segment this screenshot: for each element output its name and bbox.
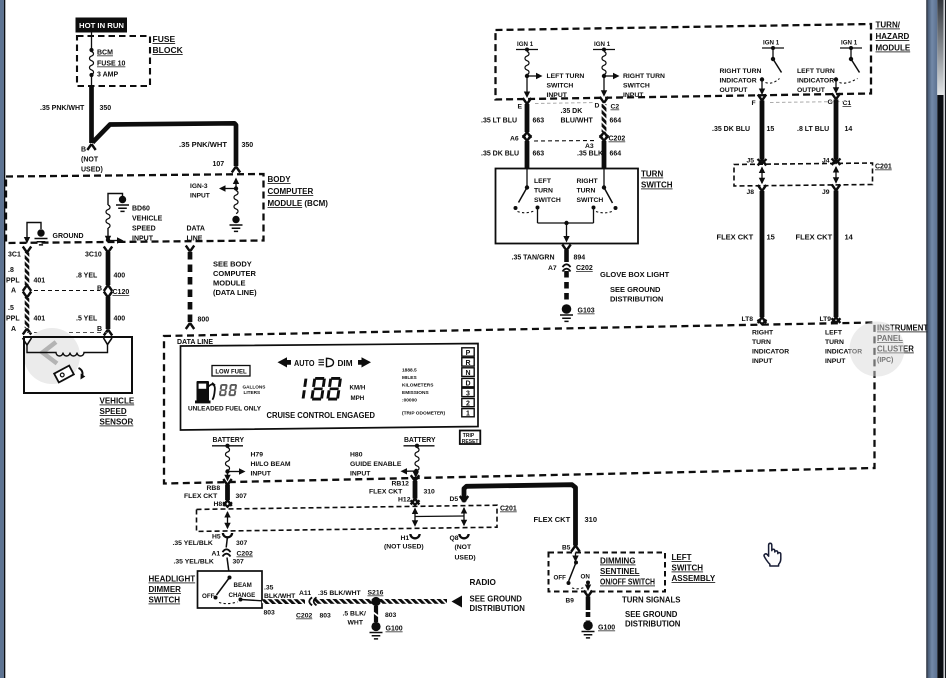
svg-text:RB8: RB8 [207, 485, 221, 492]
right turn indicator input pin label [752, 330, 789, 366]
instrument panel cluster label [877, 324, 928, 365]
svg-text:1: 1 [466, 411, 470, 418]
svg-text:A3: A3 [585, 143, 594, 150]
C201 internal pass-through H12/D5 with link [412, 507, 467, 527]
svg-text:.35 PNK/WHT: .35 PNK/WHT [179, 142, 228, 149]
svg-text::00000: :00000 [402, 398, 417, 404]
see body computer module note [213, 260, 257, 298]
svg-text:LEFT TURN: LEFT TURN [547, 73, 585, 80]
svg-text:COMPUTER: COMPUTER [213, 269, 257, 278]
svg-text:TURN: TURN [825, 339, 844, 346]
svg-text:INPUT: INPUT [350, 471, 371, 478]
svg-text:LOW FUEL: LOW FUEL [215, 369, 247, 375]
svg-text:DISTRIBUTION: DISTRIBUTION [470, 604, 526, 613]
fuse BCM FUSE 10 3 AMP [89, 31, 125, 86]
svg-text:803: 803 [320, 613, 332, 620]
data line thick dashed wire 800 [186, 246, 209, 330]
svg-text:COMPUTER: COMPUTER [268, 187, 314, 196]
svg-text:MILES: MILES [402, 375, 417, 381]
vss entry dashed line [27, 332, 108, 334]
svg-text:.35 PNK/WHT: .35 PNK/WHT [40, 105, 85, 112]
svg-text:VEHICLE: VEHICLE [132, 216, 163, 223]
svg-text:.35: .35 [264, 585, 274, 592]
svg-text:FUSE: FUSE [153, 34, 176, 44]
svg-text:RIGHT: RIGHT [577, 178, 599, 185]
left turn indicator input pin label [825, 330, 862, 366]
connector C201 dashed box [197, 505, 498, 531]
svg-text:C2: C2 [611, 104, 620, 111]
svg-text:BLU/WHT: BLU/WHT [561, 118, 594, 125]
svg-text:C202: C202 [237, 551, 253, 558]
svg-text:2: 2 [466, 401, 470, 408]
odometer captions [402, 368, 445, 417]
IGN 1 left turn switch input circuit [516, 41, 584, 99]
off page arrow to ground distribution (radio) [452, 578, 526, 613]
svg-text:C202: C202 [296, 613, 312, 620]
svg-text:LITERS: LITERS [244, 390, 261, 395]
svg-text:LEFT: LEFT [825, 330, 843, 337]
wire .5 YEL 400 [76, 292, 125, 336]
km/h mph captions [350, 385, 366, 402]
svg-text:OFF: OFF [202, 593, 215, 600]
wire .5 PPL 401 (hatched) [6, 292, 45, 335]
svg-text:14: 14 [845, 126, 853, 133]
svg-text:.8 LT BLU: .8 LT BLU [797, 126, 829, 133]
svg-text:ON: ON [581, 574, 591, 581]
svg-text:401: 401 [34, 278, 46, 285]
terminal D5 and flex ckt 310 wire to B5 [450, 485, 598, 552]
terminal E [518, 98, 532, 111]
svg-text:AUTO: AUTO [294, 359, 315, 368]
svg-text:GLOVE BOX LIGHT: GLOVE BOX LIGHT [600, 270, 670, 279]
svg-text:A7: A7 [548, 265, 557, 272]
svg-text:TURN SIGNALS: TURN SIGNALS [622, 596, 680, 605]
svg-text:INDICATOR: INDICATOR [752, 349, 789, 356]
data line pin inside BCM [187, 226, 205, 243]
svg-text:401: 401 [34, 316, 46, 323]
svg-text:IGN-3: IGN-3 [190, 183, 208, 190]
svg-text:PPL: PPL [6, 278, 20, 285]
turn signals note [622, 596, 681, 629]
svg-text:SPEED: SPEED [100, 407, 127, 416]
svg-text:A1: A1 [212, 551, 221, 558]
svg-text:350: 350 [242, 142, 254, 149]
svg-text:DIMMING: DIMMING [600, 557, 636, 566]
svg-text:15: 15 [767, 126, 775, 133]
svg-text:E: E [518, 104, 523, 111]
svg-text:BATTERY: BATTERY [213, 437, 245, 444]
svg-text:FLEX CKT: FLEX CKT [369, 489, 403, 496]
connector C201 right dashed box [734, 163, 873, 186]
IGN 1 right turn switch input circuit [593, 41, 665, 99]
turn/hazard module label [876, 21, 911, 53]
dimming sentinel labels [600, 557, 655, 587]
svg-text:S216: S216 [368, 590, 384, 597]
wire .35 LT BLU 663 [481, 104, 544, 138]
svg-text:LEFT TURN: LEFT TURN [797, 68, 835, 75]
svg-text:INPUT: INPUT [547, 92, 568, 99]
svg-text:LINE: LINE [187, 236, 203, 243]
headlight dimmer switch box [198, 571, 263, 608]
IGN 1 right turn indicator output switch [720, 40, 785, 96]
svg-text:(NOT: (NOT [455, 544, 472, 551]
svg-text:.35 TAN/GRN: .35 TAN/GRN [512, 255, 555, 262]
svg-text:OFF: OFF [554, 575, 567, 582]
turn switch label [641, 170, 673, 190]
svg-text:H79: H79 [251, 452, 264, 459]
wire .35 PNK/WHT 350 to BCM pin 107 [93, 123, 254, 172]
terminal D and C2 [535, 97, 619, 111]
svg-text:LT9: LT9 [820, 316, 832, 323]
gray artifact chevron [43, 342, 58, 364]
svg-text:14: 14 [845, 233, 854, 242]
svg-text:INDICATOR: INDICATOR [797, 78, 834, 85]
cluster display box [181, 344, 479, 431]
turn switch common bus [538, 221, 594, 243]
wire .35 DK BLU 663 [481, 141, 544, 169]
wire .8 LT BLU 14 [797, 100, 852, 166]
svg-text:C201: C201 [875, 164, 892, 171]
svg-text:BLOCK: BLOCK [153, 45, 184, 55]
svg-text:J9: J9 [822, 189, 830, 196]
svg-text:SEE BODY: SEE BODY [213, 260, 252, 269]
svg-text:A: A [11, 288, 16, 295]
svg-text:A6: A6 [510, 136, 519, 143]
svg-text:DIM: DIM [338, 359, 353, 368]
svg-text:400: 400 [114, 273, 126, 280]
svg-text:D: D [465, 381, 470, 388]
svg-text:310: 310 [424, 489, 436, 496]
svg-text:.35 DK BLU: .35 DK BLU [712, 126, 750, 133]
svg-text:3 AMP: 3 AMP [97, 72, 118, 79]
dimmer switch mechanism [202, 576, 262, 604]
svg-text:3C10: 3C10 [85, 252, 102, 259]
svg-text:HAZARD: HAZARD [876, 32, 910, 41]
terminal F [752, 95, 767, 108]
svg-text:KILOMETERS: KILOMETERS [402, 383, 434, 389]
svg-text:BLK/WHT: BLK/WHT [264, 593, 296, 600]
svg-text:LEFT: LEFT [534, 178, 552, 185]
svg-text:SWITCH: SWITCH [641, 181, 673, 190]
svg-text:.35 BLK: .35 BLK [577, 151, 603, 158]
svg-text:FUSE 10: FUSE 10 [97, 61, 126, 68]
svg-text:C202: C202 [576, 265, 593, 272]
svg-text:B9: B9 [566, 598, 575, 605]
gallons liters caption [243, 385, 266, 396]
svg-text:BATTERY: BATTERY [404, 437, 436, 444]
svg-text:EMISSIONS: EMISSIONS [402, 390, 429, 396]
svg-text:803: 803 [264, 610, 276, 617]
svg-text:D: D [595, 103, 600, 110]
trip reset button [460, 431, 481, 446]
svg-text:C120: C120 [113, 289, 130, 296]
svg-text:3C1: 3C1 [8, 252, 21, 259]
IGN 1 left turn indicator output switch [797, 40, 862, 95]
svg-text:BODY: BODY [268, 175, 292, 184]
svg-text:USED): USED) [455, 555, 476, 562]
svg-text:(DATA LINE): (DATA LINE) [213, 288, 257, 297]
svg-text:BD60: BD60 [132, 206, 150, 213]
svg-text:.35 YEL/BLK: .35 YEL/BLK [174, 559, 214, 566]
svg-text:663: 663 [533, 151, 545, 158]
svg-text:IGN 1: IGN 1 [763, 40, 780, 47]
svg-text:SEE GROUND: SEE GROUND [625, 610, 678, 619]
HOT IN RUN feed box [76, 18, 128, 33]
svg-text:FLEX CKT: FLEX CKT [534, 515, 571, 524]
svg-text:DISTRIBUTION: DISTRIBUTION [610, 295, 663, 304]
flex ckt 15 wire J8 to LT8 [717, 185, 775, 324]
wire .35 BLK 664 [577, 141, 621, 169]
svg-text:INPUT: INPUT [825, 358, 846, 365]
svg-text:FLEX CKT: FLEX CKT [796, 233, 833, 242]
svg-text:A11: A11 [299, 590, 311, 597]
svg-text:CHANGE: CHANGE [229, 592, 256, 599]
svg-text:TURN: TURN [641, 170, 663, 179]
svg-text:J8: J8 [747, 189, 755, 196]
svg-text:HI/LO BEAM: HI/LO BEAM [251, 461, 291, 468]
svg-text:310: 310 [585, 515, 598, 524]
svg-text:894: 894 [574, 255, 586, 262]
svg-text:DIMMER: DIMMER [149, 585, 182, 594]
svg-text:GALLONS: GALLONS [243, 385, 266, 390]
svg-text:B: B [97, 326, 102, 333]
svg-text:663: 663 [533, 118, 545, 125]
vehicle speed input circuit inside BCM, pin 3C10 [85, 194, 163, 259]
terminal B9 wire to G100 [566, 591, 593, 622]
svg-text:C201: C201 [500, 506, 517, 513]
svg-text:C202: C202 [609, 136, 626, 143]
svg-text:INPUT: INPUT [132, 236, 154, 243]
svg-text:(NOT USED): (NOT USED) [384, 544, 424, 551]
svg-text:RIGHT TURN: RIGHT TURN [720, 68, 762, 75]
ground G103 [560, 304, 595, 321]
svg-text:OUTPUT: OUTPUT [797, 87, 826, 94]
svg-text:RIGHT: RIGHT [752, 330, 774, 337]
svg-text:H12: H12 [398, 497, 411, 504]
svg-text:A: A [11, 326, 16, 333]
svg-text:SWITCH: SWITCH [547, 83, 574, 90]
connector C202 A6/A3 [510, 135, 625, 150]
svg-text:107: 107 [213, 161, 225, 168]
flex ckt 310 stub RB12-H12 [369, 475, 435, 505]
terminal G and C1 [770, 93, 851, 107]
connector C120 [34, 289, 129, 296]
wire 350 .35 PNK/WHT vertical from fuse [40, 86, 111, 143]
instrument panel cluster dashed box [164, 323, 875, 484]
C201 pass-through J4-J9 [833, 166, 839, 184]
watermark smudge over sensor [24, 328, 80, 384]
svg-text:664: 664 [610, 118, 622, 125]
svg-text:D5: D5 [450, 496, 459, 503]
wire 3C10 .8 YEL 400 [76, 247, 125, 293]
svg-text:INPUT: INPUT [190, 193, 210, 200]
svg-text:400: 400 [114, 316, 126, 323]
PRNDL gear indicator [462, 348, 474, 418]
svg-text:USED): USED) [81, 167, 103, 174]
wire 3C1 .8 PPL 401 (hatched) [6, 247, 45, 295]
svg-text:G103: G103 [578, 308, 595, 315]
svg-text:WHT: WHT [348, 620, 364, 627]
svg-text:.5 BLK/: .5 BLK/ [343, 611, 367, 618]
auto dim headlamp row [278, 357, 372, 368]
svg-text:P: P [466, 350, 471, 357]
svg-text:GROUND: GROUND [53, 233, 84, 240]
svg-text:LEFT: LEFT [672, 553, 692, 562]
svg-text:.35 DK BLU: .35 DK BLU [481, 151, 519, 158]
svg-text:.5: .5 [8, 305, 14, 312]
svg-text:HEADLIGHT: HEADLIGHT [149, 575, 196, 584]
svg-text:.35 YEL/BLK: .35 YEL/BLK [173, 540, 213, 547]
terminal H5 [173, 533, 248, 547]
wire .5 BLK/WHT 803 to G100 [343, 606, 397, 627]
svg-text:RESET: RESET [462, 439, 479, 445]
svg-text:GUIDE ENABLE: GUIDE ENABLE [350, 461, 402, 468]
svg-text:TURN/: TURN/ [876, 21, 901, 30]
svg-text:H8: H8 [214, 501, 223, 508]
svg-text:INDICATOR: INDICATOR [720, 78, 757, 85]
vss reluctor magnet [54, 366, 85, 383]
turn/hazard module dashed box [496, 24, 872, 100]
svg-text:VEHICLE: VEHICLE [100, 397, 135, 406]
svg-text:BCM: BCM [97, 50, 113, 57]
svg-text:ASSEMBLY: ASSEMBLY [672, 574, 716, 583]
flex ckt 307 stub RB8-H8 [184, 479, 247, 508]
svg-text:MODULE (BCM): MODULE (BCM) [268, 199, 329, 208]
terminal Q8 not used [450, 534, 476, 562]
dimming sentinel on/off switch dashed box [549, 553, 666, 592]
vehicle speed sensor label [100, 397, 135, 427]
mouse cursor [764, 543, 781, 566]
svg-text:CRUISE CONTROL ENGAGED: CRUISE CONTROL ENGAGED [267, 411, 376, 420]
svg-text:TRIP: TRIP [463, 433, 475, 439]
svg-text:SWITCH: SWITCH [672, 564, 704, 573]
window chrome right strips [926, 0, 946, 678]
svg-text:IGN 1: IGN 1 [841, 40, 858, 47]
svg-text:KM/H: KM/H [350, 385, 366, 392]
svg-text:HOT IN RUN: HOT IN RUN [79, 21, 124, 30]
svg-text:INPUT: INPUT [251, 471, 272, 478]
vehicle speed sensor box [24, 337, 132, 393]
left turn switch contacts [514, 169, 561, 224]
terminal H1 not used [384, 534, 424, 551]
svg-text:MODULE: MODULE [876, 44, 911, 53]
vss pickup coil internals [23, 338, 113, 356]
fuel quantity 88 seven segment [219, 384, 237, 396]
svg-text:INPUT: INPUT [623, 92, 644, 99]
svg-text:PPL: PPL [6, 316, 20, 323]
svg-text:.35 DK: .35 DK [561, 108, 583, 115]
svg-text:B: B [97, 286, 102, 293]
battery H80 guide enable input circuit [350, 437, 436, 478]
svg-text:SEE GROUND: SEE GROUND [470, 595, 523, 604]
sentinel switch mechanism B5 to B9 [554, 553, 592, 592]
svg-text:DATA: DATA [187, 226, 205, 233]
svg-text:BEAM: BEAM [234, 582, 252, 589]
ground G100 (turn signals) [582, 621, 616, 638]
svg-text:1888.5: 1888.5 [402, 368, 417, 374]
svg-text:G: G [828, 99, 833, 106]
flex ckt 14 wire J9 to LT9 [796, 185, 854, 324]
svg-text:MODULE: MODULE [213, 279, 246, 288]
svg-text:803: 803 [385, 612, 397, 619]
svg-text:RIGHT TURN: RIGHT TURN [623, 73, 665, 80]
IGN-3 input circuit inside BCM [190, 178, 243, 232]
C201 pass-through J5-J8 [759, 167, 765, 185]
svg-text:G100: G100 [598, 625, 615, 632]
fuse block label [153, 34, 184, 55]
svg-text:.35 BLK/WHT: .35 BLK/WHT [318, 590, 362, 597]
battery H79 hi/lo beam input circuit [212, 437, 291, 482]
svg-text:UNLEADED FUEL ONLY: UNLEADED FUEL ONLY [188, 406, 261, 413]
svg-text:SEE GROUND: SEE GROUND [610, 285, 661, 294]
svg-text:N: N [465, 370, 470, 377]
svg-text:800: 800 [198, 317, 210, 324]
window chrome left strip [0, 0, 5, 678]
right turn switch contacts [577, 169, 618, 224]
wire .35 DK BLU/WHT 664 (striped) [561, 104, 622, 138]
svg-text:FLEX CKT: FLEX CKT [184, 493, 218, 500]
svg-text:OUTPUT: OUTPUT [720, 87, 749, 94]
ground circuit inside BCM, pin 3C1 [8, 223, 84, 259]
svg-text:RB12: RB12 [392, 481, 410, 488]
svg-text:MPH: MPH [351, 395, 365, 402]
svg-text:307: 307 [233, 559, 245, 566]
svg-text:FLEX CKT: FLEX CKT [717, 233, 754, 242]
svg-text:IGN 1: IGN 1 [517, 41, 534, 48]
svg-text:LT8: LT8 [742, 316, 754, 323]
watermark smudge over IPC label [850, 322, 905, 377]
fuel pump icon [195, 381, 215, 403]
svg-text:G100: G100 [386, 626, 403, 633]
splice S216 [371, 597, 380, 606]
svg-text:H80: H80 [350, 452, 363, 459]
svg-text:664: 664 [610, 151, 622, 158]
svg-text:IGN 1: IGN 1 [594, 41, 611, 48]
svg-text:350: 350 [100, 105, 112, 112]
svg-text:SENSOR: SENSOR [100, 418, 134, 427]
harness wire .35 BLK/WHT to S216 (hatched) [262, 585, 447, 620]
svg-text:INPUT: INPUT [752, 358, 773, 365]
low fuel indicator [212, 366, 250, 377]
wire .35 DK BLU 15 [712, 101, 774, 166]
svg-text:(TRIP ODOMETER): (TRIP ODOMETER) [402, 411, 445, 417]
svg-text:F: F [752, 100, 756, 107]
svg-text:B: B [81, 147, 86, 154]
svg-text:R: R [465, 360, 470, 367]
svg-text:SPEED: SPEED [132, 226, 156, 233]
speed 188 seven segment [302, 377, 342, 401]
svg-text:Q8: Q8 [450, 535, 459, 542]
svg-text:SWITCH: SWITCH [149, 596, 181, 605]
BCM label [268, 175, 329, 208]
wire H5 to dimmer via C202 A1 [174, 537, 253, 572]
ground G100 (radio harness) [370, 622, 403, 639]
wire .35 TAN/GRN 894 to glove box light ground [512, 245, 593, 305]
svg-text:.35 LT BLU: .35 LT BLU [481, 118, 517, 125]
terminal B (NOT USED) [81, 144, 103, 174]
svg-text:.8: .8 [8, 267, 14, 274]
svg-text:.5 YEL: .5 YEL [76, 316, 98, 323]
svg-text:307: 307 [236, 540, 248, 547]
svg-text:RADIO: RADIO [470, 578, 497, 587]
headlight dimmer switch label [149, 575, 196, 605]
glove box light note [600, 270, 670, 304]
fuse block dashed box [77, 36, 150, 86]
svg-text:TURN: TURN [534, 188, 553, 195]
svg-text:3: 3 [466, 390, 470, 397]
svg-text:.8 YEL: .8 YEL [76, 273, 98, 280]
svg-text:15: 15 [767, 233, 775, 242]
